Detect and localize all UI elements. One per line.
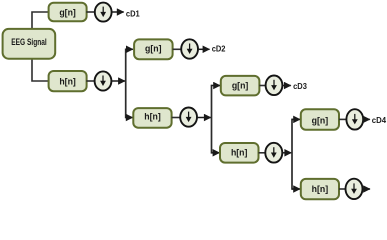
downsampler level 1 approx bbox=[95, 71, 112, 90]
downsampler level 3 detail bbox=[266, 76, 283, 96]
downsampler level 3 approx bbox=[265, 143, 282, 163]
wire downsampler 2 to cD2 bbox=[198, 48, 210, 50]
wire h1 to downsampler bbox=[86, 80, 95, 82]
wire downsampler 3a to node 3 bbox=[282, 152, 291, 154]
svg-text:cD2: cD2 bbox=[212, 44, 226, 54]
filter h[n] level 1 bbox=[49, 71, 87, 91]
filter g[n] level 4 bbox=[301, 109, 339, 129]
downsampler level 2 approx bbox=[180, 108, 197, 127]
svg-text:cD4: cD4 bbox=[372, 115, 386, 125]
wire h2 to downsampler bbox=[172, 117, 180, 119]
wire g2 to downsampler bbox=[173, 48, 182, 50]
svg-text:cD3: cD3 bbox=[293, 81, 307, 91]
source box EEG Signal bbox=[3, 29, 56, 59]
wire node1 to h[n] level 2 bbox=[126, 117, 133, 119]
svg-text:g[n]: g[n] bbox=[312, 116, 329, 127]
svg-text:g[n]: g[n] bbox=[59, 7, 76, 18]
wire EEG to h[n] level 1 bbox=[32, 58, 49, 81]
downsampler level 4 approx bbox=[346, 179, 363, 199]
svg-text:h[n]: h[n] bbox=[144, 112, 161, 123]
svg-text:h[n]: h[n] bbox=[231, 148, 248, 159]
svg-text:g[n]: g[n] bbox=[145, 44, 162, 55]
downsampler level 4 detail bbox=[346, 109, 363, 129]
svg-text:cD1: cD1 bbox=[126, 8, 140, 18]
wire node2 to h[n] level 3 bbox=[212, 152, 220, 154]
wire g4 to downsampler bbox=[339, 118, 347, 120]
wire downsampler 4 to cD4 bbox=[363, 118, 370, 120]
downsampler level 1 detail bbox=[95, 3, 112, 22]
wire EEG to g[n] level 1 bbox=[32, 12, 49, 30]
node 3 junction vertical bbox=[291, 119, 293, 190]
svg-text:EEG Signal: EEG Signal bbox=[11, 37, 47, 47]
wire downsampler 1 to cD1 bbox=[112, 11, 124, 13]
downsampler level 2 detail bbox=[181, 39, 198, 58]
wire downsampler 3 to cD3 bbox=[282, 85, 290, 87]
filter g[n] level 3 bbox=[221, 76, 260, 96]
wire h3 to downsampler bbox=[259, 152, 266, 154]
filter h[n] level 2 bbox=[133, 108, 171, 128]
wire h4 to downsampler bbox=[339, 188, 346, 190]
wire g3 to downsampler bbox=[259, 85, 266, 87]
wire node3 to g[n] level 4 bbox=[292, 118, 300, 120]
wire node2 to g[n] level 3 bbox=[212, 85, 221, 87]
wire downsampler 2a to node 2 bbox=[197, 117, 211, 119]
node 1 junction vertical bbox=[125, 49, 127, 119]
svg-text:g[n]: g[n] bbox=[232, 81, 249, 92]
wire g1 to downsampler bbox=[86, 11, 95, 13]
svg-text:h[n]: h[n] bbox=[312, 184, 329, 195]
node 2 junction vertical bbox=[211, 85, 213, 154]
filter g[n] level 1 bbox=[49, 3, 87, 21]
wire downsampler 4a output bbox=[363, 188, 371, 190]
filter h[n] level 3 bbox=[220, 143, 259, 163]
wire downsampler 1a to node 1 bbox=[111, 80, 125, 82]
svg-text:h[n]: h[n] bbox=[59, 76, 76, 87]
filter h[n] level 4 bbox=[301, 179, 339, 199]
wire node1 to g[n] level 2 bbox=[126, 48, 133, 50]
filter g[n] level 2 bbox=[134, 39, 173, 59]
wire node3 to h[n] level 4 bbox=[292, 188, 300, 190]
